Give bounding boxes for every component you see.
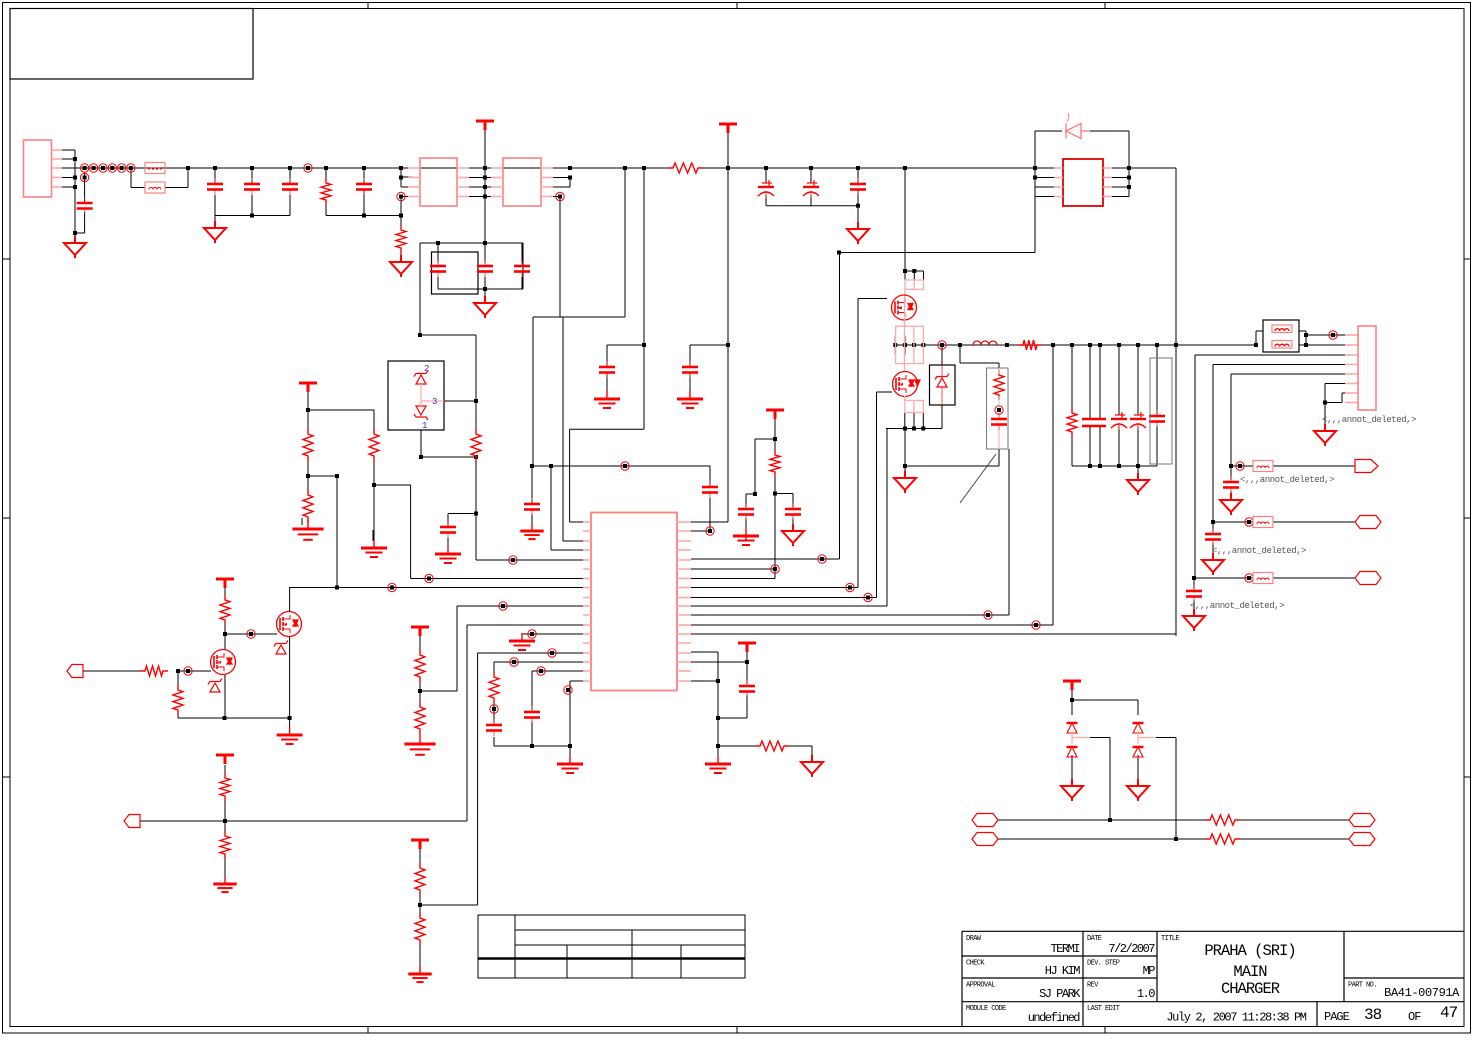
port bbox=[124, 815, 140, 828]
svg-text:2: 2 bbox=[424, 364, 429, 374]
ground bbox=[594, 391, 620, 408]
connection point bbox=[1032, 621, 1040, 629]
ground bbox=[390, 255, 412, 277]
ferrite bead bbox=[1253, 517, 1273, 528]
ground bbox=[1314, 424, 1336, 446]
connection point bbox=[564, 686, 572, 694]
connection point bbox=[490, 705, 498, 713]
ground bbox=[204, 221, 226, 243]
wire Q2 source rail bbox=[886, 413, 999, 607]
pin stubs bbox=[1054, 168, 1063, 197]
pin stubs bbox=[408, 168, 420, 197]
wire U1 bottom-right rows bbox=[691, 645, 747, 718]
power flag bbox=[216, 755, 234, 764]
connection point bbox=[938, 341, 946, 349]
capacitor bbox=[1223, 476, 1239, 493]
svg-text:PART NO.: PART NO. bbox=[1348, 982, 1377, 990]
wire divider at 420 bbox=[420, 636, 457, 740]
wire Q1 gate/drain bbox=[858, 253, 905, 588]
wire U1 rows 569/578 supply net bbox=[691, 419, 793, 579]
wire sense nets down bbox=[533, 168, 728, 466]
power flag VIN bbox=[476, 121, 494, 130]
connection point bbox=[510, 658, 518, 666]
resistor bbox=[220, 773, 230, 801]
capacitor bbox=[356, 178, 372, 195]
svg-text:47: 47 bbox=[1440, 1004, 1458, 1022]
connection point bbox=[127, 164, 135, 172]
wire junctions bbox=[73, 157, 1327, 907]
svg-text:DEV. STEP: DEV. STEP bbox=[1087, 960, 1120, 968]
wire diode grounds bbox=[1072, 733, 1138, 781]
wire divider at 420 lower bbox=[420, 849, 478, 970]
connection point bbox=[1245, 574, 1253, 582]
current sense box bbox=[987, 368, 1009, 449]
resistor bbox=[220, 831, 230, 859]
resistor bbox=[770, 450, 780, 477]
connector pin stubs bbox=[52, 150, 63, 187]
ground bbox=[277, 727, 303, 744]
wire input cap branch bbox=[75, 172, 85, 236]
svg-text:HJ KIM: HJ KIM bbox=[1045, 964, 1081, 978]
wire output caps bank bbox=[1053, 345, 1157, 625]
svg-text:MP: MP bbox=[1143, 964, 1156, 978]
common-mode filter U11 bbox=[503, 158, 541, 206]
resistor bbox=[396, 225, 406, 253]
wire net IC2 pin4 down bbox=[559, 197, 561, 318]
svg-text:PRAHA (SRI): PRAHA (SRI) bbox=[1204, 942, 1295, 960]
zener diode bbox=[414, 371, 428, 385]
transistor package outline bbox=[905, 280, 924, 296]
svg-text:DRAW: DRAW bbox=[966, 935, 982, 943]
capacitor bbox=[282, 178, 298, 195]
connection point bbox=[80, 164, 88, 172]
wire port row 821 bbox=[140, 796, 467, 880]
wire rail to Q1 drain bbox=[904, 168, 906, 253]
wire J1 pin bus bbox=[62, 150, 75, 187]
wire U1 left long nets bbox=[289, 579, 583, 906]
resistor bbox=[220, 595, 230, 625]
wire ground stubs bbox=[302, 518, 373, 541]
U1 right pin stubs bbox=[677, 522, 691, 681]
wire crystal block loop bbox=[420, 243, 523, 335]
capacitor bbox=[738, 503, 754, 520]
wire ground rail right bbox=[691, 681, 812, 760]
port bbox=[1355, 572, 1381, 585]
capacitor (wide) bbox=[1082, 419, 1106, 426]
connection point bbox=[304, 164, 312, 172]
MOSFET Q2 bbox=[893, 372, 921, 397]
ferrite bead bbox=[1272, 341, 1292, 349]
capacitor bbox=[991, 413, 1007, 430]
wire J2 ground pins bbox=[1325, 384, 1345, 426]
PWM controller U3 bbox=[1063, 159, 1103, 206]
wire output rows 820/839 bbox=[998, 820, 1349, 839]
port bbox=[1355, 460, 1378, 473]
TVS dual zener box D10 bbox=[388, 361, 444, 430]
ground bbox=[801, 755, 823, 777]
svg-text:PAGE: PAGE bbox=[1324, 1010, 1350, 1024]
diode bbox=[1133, 723, 1144, 733]
wire U1 rows 615/625/634 nets bbox=[522, 615, 1053, 636]
common-mode filter U10 bbox=[420, 158, 457, 206]
ground bbox=[847, 222, 869, 244]
connection point bbox=[818, 555, 826, 563]
capacitor bbox=[477, 260, 493, 277]
schottky diode D1 bbox=[1066, 113, 1090, 139]
power flag bbox=[411, 627, 429, 636]
wire U1 row 662 RC bbox=[493, 662, 495, 746]
capacitor bbox=[207, 178, 223, 195]
svg-text:July 2, 2007 11:28:38 PM: July 2, 2007 11:28:38 PM bbox=[1166, 1011, 1306, 1025]
wire U1 rows 587-606 nets bbox=[691, 588, 887, 607]
ferrite bead bbox=[1253, 461, 1273, 472]
wire choke input bbox=[1176, 331, 1345, 345]
connection point bbox=[397, 192, 405, 200]
wire U1 rows 522/531 bbox=[551, 429, 583, 550]
resistor bbox=[994, 370, 1004, 400]
wire TVS internal stub bbox=[420, 387, 422, 392]
ground bbox=[509, 633, 535, 650]
resistor bbox=[755, 741, 789, 751]
zener diode bbox=[274, 641, 288, 655]
port bbox=[1349, 814, 1375, 827]
connection point bbox=[1329, 331, 1337, 339]
revision reference box top-left bbox=[10, 9, 253, 80]
svg-text:1: 1 bbox=[422, 421, 427, 431]
connection point bbox=[184, 667, 192, 675]
svg-text:CHARGER: CHARGER bbox=[1221, 980, 1280, 998]
ground bbox=[408, 967, 431, 982]
resistor bbox=[1205, 815, 1240, 825]
wire Q2 gate to U1 row 597 bbox=[877, 392, 893, 598]
capacitor bbox=[1186, 585, 1202, 602]
svg-text:7/2/2007: 7/2/2007 bbox=[1108, 942, 1155, 956]
capacitor bbox=[430, 260, 446, 277]
port bbox=[1355, 516, 1381, 529]
resistor bbox=[1018, 340, 1042, 350]
revision table bbox=[478, 915, 745, 978]
net annotation labels bbox=[1190, 415, 1416, 611]
connection point bbox=[509, 556, 517, 564]
wire U10-U11 interconnect bbox=[457, 168, 503, 197]
connection point bbox=[864, 593, 872, 601]
U1 left pin stubs bbox=[583, 522, 591, 681]
wire U3 left pins / diode loop bbox=[905, 131, 1129, 197]
ground bbox=[292, 519, 323, 539]
ground bbox=[1127, 779, 1149, 801]
ground bbox=[361, 540, 387, 557]
connection point bbox=[528, 630, 536, 638]
ground bbox=[1183, 609, 1205, 631]
capacitor bbox=[244, 178, 260, 195]
wire ferrite bead loop bbox=[131, 168, 188, 188]
wire current-sense branch bbox=[960, 345, 1009, 615]
connection point bbox=[548, 649, 556, 657]
capacitor bbox=[524, 498, 540, 515]
svg-text:undefined: undefined bbox=[1028, 1011, 1081, 1025]
svg-text:APPROVAL: APPROVAL bbox=[966, 982, 995, 990]
wire VDD net to U1 pin row 522 bbox=[691, 133, 728, 522]
polarized capacitor bbox=[758, 180, 774, 198]
inductor L1 bbox=[973, 341, 997, 345]
power flag bbox=[411, 840, 429, 849]
ferrite bead FL2 bbox=[145, 182, 165, 193]
title block bbox=[962, 931, 1464, 1026]
pin number labels bbox=[422, 364, 437, 431]
wire bias chain stem bbox=[224, 765, 226, 778]
wire J2 nets down bbox=[1195, 355, 1345, 578]
connection point bbox=[425, 574, 433, 582]
wire output diode pairs bbox=[1072, 690, 1138, 715]
connection point bbox=[984, 611, 992, 619]
resistor bbox=[1067, 408, 1077, 437]
ferrite bead bbox=[1272, 325, 1292, 333]
connection point bbox=[108, 164, 116, 172]
wire J2 pin rows bbox=[1345, 355, 1358, 403]
resistor bbox=[140, 666, 168, 676]
ground bbox=[435, 546, 461, 563]
wire output row 578 bbox=[1194, 578, 1355, 612]
capacitor bbox=[1205, 528, 1221, 545]
connection point bbox=[99, 164, 107, 172]
transistor package outline bbox=[905, 396, 924, 413]
connection point bbox=[247, 630, 255, 638]
svg-text:DATE: DATE bbox=[1087, 935, 1102, 943]
annotation arrow bbox=[960, 454, 996, 503]
ferrite bead bbox=[1253, 573, 1273, 584]
connection point bbox=[556, 192, 564, 200]
connection point bbox=[537, 667, 545, 675]
capacitor bbox=[514, 260, 530, 277]
wire ground stub bbox=[904, 466, 906, 471]
ground bbox=[557, 756, 583, 773]
zener clamp box bbox=[930, 365, 956, 405]
capacitor bbox=[524, 706, 540, 723]
output connector J2 bbox=[1358, 326, 1376, 410]
svg-text:LAST EDIT: LAST EDIT bbox=[1087, 1005, 1120, 1013]
resistor bbox=[1205, 834, 1240, 844]
resistor bbox=[415, 913, 425, 945]
J2 pin stubs bbox=[1345, 335, 1358, 403]
title block values bbox=[1028, 942, 1460, 1025]
capacitor bbox=[1149, 410, 1165, 427]
svg-text:TERMI: TERMI bbox=[1050, 942, 1079, 956]
connection point bbox=[388, 583, 396, 591]
diode bbox=[1067, 723, 1078, 733]
ground bbox=[520, 524, 543, 539]
connection point bbox=[1236, 462, 1244, 470]
svg-text:CHECK: CHECK bbox=[966, 960, 985, 968]
svg-text:OF: OF bbox=[1408, 1010, 1421, 1024]
connection point bbox=[117, 164, 125, 172]
pin stubs bbox=[1103, 168, 1112, 197]
wire output row 466 bbox=[1231, 466, 1355, 498]
power flag bbox=[719, 124, 737, 133]
MOSFET Q4 bbox=[277, 612, 302, 637]
wire diode taps to rows bbox=[1072, 738, 1176, 840]
ground bbox=[1061, 779, 1083, 801]
connection point bbox=[846, 583, 854, 591]
wire power stem to crystal block bbox=[484, 130, 486, 243]
wire Q1 package pins bbox=[905, 271, 924, 280]
wire switch-node bus bbox=[895, 336, 1176, 355]
capacitor bbox=[850, 178, 866, 195]
wire VIN main rail bbox=[62, 150, 905, 233]
sense shield box bbox=[1150, 358, 1172, 464]
zener diode bbox=[208, 679, 222, 693]
pin stubs bbox=[541, 168, 553, 197]
wire cap branch row bbox=[531, 466, 533, 528]
ground bbox=[705, 756, 731, 773]
title block labels bbox=[966, 935, 1377, 1013]
svg-text:3: 3 bbox=[432, 397, 437, 407]
connection point bbox=[89, 164, 97, 172]
pin stubs bbox=[457, 168, 469, 197]
resistor bbox=[471, 429, 481, 461]
capacitor bbox=[440, 521, 456, 538]
svg-text:SJ PARK: SJ PARK bbox=[1039, 987, 1081, 1001]
wire net row 466 to U1 row 531 bbox=[532, 466, 710, 531]
power flag bbox=[766, 410, 784, 419]
resistor bbox=[415, 863, 425, 895]
svg-text:REV: REV bbox=[1087, 982, 1099, 990]
resistor bbox=[303, 490, 313, 522]
ground bbox=[404, 734, 435, 754]
zener diode bbox=[935, 374, 949, 388]
connection point bbox=[621, 462, 629, 470]
wire U3 output to U1 row 634 bbox=[1175, 168, 1177, 634]
resistor bbox=[489, 672, 499, 703]
svg-text:MAIN: MAIN bbox=[1233, 963, 1267, 981]
ground bbox=[677, 391, 703, 408]
ground bbox=[474, 296, 496, 318]
capacitor bbox=[739, 680, 755, 697]
wire U1 row 634 long net bbox=[691, 634, 1176, 636]
resistor bbox=[321, 178, 331, 205]
wire U3 net to left vertical bbox=[840, 197, 1036, 253]
wire gate input net bbox=[83, 671, 211, 718]
wire U11 right pins bbox=[541, 178, 570, 197]
svg-text:<,,,annot_deleted,>: <,,,annot_deleted,> bbox=[1240, 475, 1334, 485]
resistor bbox=[369, 429, 379, 461]
diode bbox=[1133, 747, 1144, 757]
main charger controller U1 bbox=[591, 513, 677, 691]
power flag bbox=[216, 579, 234, 588]
connection point bbox=[499, 602, 507, 610]
resistor bbox=[668, 163, 703, 173]
port (input signal) bbox=[67, 665, 83, 678]
svg-text:TITLE: TITLE bbox=[1161, 935, 1179, 943]
ground bbox=[733, 528, 759, 545]
wire net to U1 pin row 541 bbox=[563, 317, 583, 541]
svg-text:1.0: 1.0 bbox=[1137, 987, 1155, 1001]
wire U1 row 681 bbox=[570, 680, 583, 682]
ground bbox=[213, 877, 236, 892]
power flag bbox=[299, 383, 317, 392]
resistor bbox=[173, 685, 183, 715]
ground (input) bbox=[64, 236, 86, 258]
connection point bbox=[80, 173, 88, 181]
wire TVS bias network bbox=[308, 391, 411, 588]
wire caps bottom rail bbox=[1072, 466, 1157, 475]
polarized capacitor bbox=[1111, 412, 1127, 430]
wire bus segments bbox=[942, 344, 1053, 346]
transistor package outline bbox=[896, 296, 924, 371]
port bbox=[972, 814, 998, 827]
ground bbox=[1202, 553, 1224, 575]
resistor bbox=[303, 429, 313, 461]
inductor bbox=[1275, 344, 1289, 346]
wire U1 row 559 net bbox=[691, 253, 840, 560]
port bbox=[972, 833, 998, 846]
wire TVS pin3/pin1 net bbox=[421, 335, 583, 560]
inductor bbox=[1275, 329, 1289, 331]
connection point bbox=[771, 565, 779, 573]
wire U1 bottom rail bbox=[494, 671, 570, 760]
input connector J1 bbox=[24, 140, 52, 197]
wire U3 right pins bbox=[1112, 131, 1176, 197]
svg-text:BA41-00791A: BA41-00791A bbox=[1384, 986, 1460, 1000]
power flag bbox=[1063, 681, 1081, 690]
capacitor bbox=[77, 197, 93, 214]
polarized capacitor bbox=[803, 180, 819, 198]
connection point bbox=[995, 406, 1003, 414]
ground bbox=[894, 471, 916, 493]
wire Q3/Q4 divider chain bbox=[178, 587, 290, 731]
ground bbox=[1220, 493, 1242, 515]
choke filter box bbox=[1263, 320, 1299, 352]
port bbox=[1349, 833, 1375, 846]
resistor bbox=[415, 702, 425, 734]
ground bbox=[782, 524, 804, 546]
crystal/cap block bbox=[432, 252, 479, 294]
MOSFET Q1 bbox=[892, 295, 917, 320]
svg-text:<,,,annot_deleted,>: <,,,annot_deleted,> bbox=[1212, 546, 1306, 556]
svg-text:<,,,annot_deleted,>: <,,,annot_deleted,> bbox=[1322, 415, 1416, 425]
polarized capacitor bbox=[1130, 412, 1146, 430]
pin stubs bbox=[491, 168, 503, 197]
wire output row 522 bbox=[1213, 522, 1355, 556]
wire RC filter / U10 pin4 chain bbox=[326, 168, 412, 255]
power flag bbox=[738, 643, 756, 652]
wire zener clamp branch bbox=[941, 345, 943, 429]
diode bbox=[1067, 747, 1078, 757]
ferrite bead FL1 bbox=[145, 163, 165, 174]
svg-text:MODULE CODE: MODULE CODE bbox=[966, 1005, 1006, 1013]
MOSFET Q3 bbox=[211, 650, 236, 675]
svg-text:38: 38 bbox=[1364, 1006, 1382, 1024]
capacitor bbox=[702, 481, 718, 498]
wire input filter caps bbox=[215, 168, 290, 221]
resistor bbox=[415, 650, 425, 682]
capacitor bbox=[486, 719, 502, 736]
capacitor bbox=[785, 503, 801, 520]
capacitor bbox=[682, 361, 698, 378]
connection point bbox=[706, 527, 714, 535]
connection point bbox=[1245, 518, 1253, 526]
capacitor bbox=[599, 361, 615, 378]
svg-text:<,,,annot_deleted,>: <,,,annot_deleted,> bbox=[1190, 601, 1284, 611]
wire bulk caps bbox=[766, 168, 858, 222]
ground bbox=[1127, 473, 1149, 495]
zener diode bbox=[414, 406, 428, 420]
